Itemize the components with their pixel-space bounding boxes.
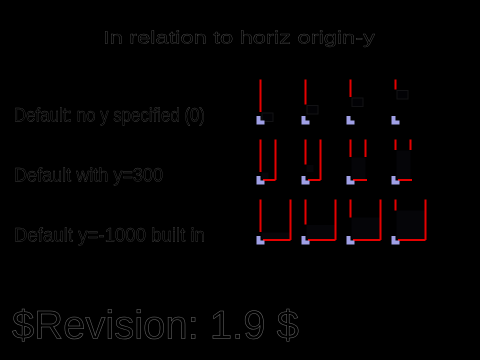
r1c4 faint box — [397, 91, 408, 100]
r3c4 red path — [396, 200, 426, 241]
r2c3 blue L glyph — [347, 176, 355, 185]
r2c1 red path — [261, 140, 276, 181]
r3c4 blue L glyph — [392, 236, 400, 245]
r1c2 faint box — [307, 106, 318, 115]
r3c1 red path — [261, 200, 291, 241]
r2c4 red path — [396, 140, 413, 181]
r3c3 faint box — [352, 218, 380, 240]
r2c2 red path — [306, 140, 321, 181]
r3c1 blue L glyph — [257, 236, 265, 245]
r1c1 red advance line — [260, 80, 262, 113]
r2c1 blue L glyph — [257, 176, 265, 185]
r1c3 red advance line — [350, 80, 352, 98]
svg-text:$Revision: 1.9 $: $Revision: 1.9 $ — [12, 304, 299, 348]
r2c3 red path — [351, 140, 368, 181]
r2c2 faint box — [307, 165, 314, 172]
r2c4 blue L glyph — [392, 176, 400, 185]
svg-text:In relation to horiz origin-y: In relation to horiz origin-y — [103, 28, 375, 48]
svg-text:Default y=-1000 built in: Default y=-1000 built in — [14, 226, 205, 247]
r1c2 blue L glyph — [302, 116, 310, 125]
r3c3 red path — [351, 200, 381, 241]
r1c1 blue L glyph — [257, 116, 265, 125]
r3c2 red path — [306, 200, 336, 241]
r2c4 faint box — [397, 151, 411, 180]
r1c3 blue L glyph — [347, 116, 355, 125]
r1c3 faint box — [352, 98, 363, 107]
r1c4 red advance line — [395, 80, 397, 90]
r2c3 faint box — [352, 158, 366, 180]
r1c1 faint box — [262, 113, 273, 122]
svg-text:Default with y=300: Default with y=300 — [14, 166, 163, 187]
r1c4 blue L glyph — [392, 116, 400, 125]
r3c2 blue L glyph — [302, 236, 310, 245]
r3c1 faint box — [262, 233, 290, 240]
r3c2 faint box — [307, 225, 335, 240]
r1c2 red advance line — [305, 80, 307, 105]
svg-text:Default: no y specified (0): Default: no y specified (0) — [14, 106, 205, 127]
r3c3 blue L glyph — [347, 236, 355, 245]
r3c4 faint box — [397, 211, 425, 240]
r2c2 blue L glyph — [302, 176, 310, 185]
r2c1 faint box — [262, 173, 269, 180]
